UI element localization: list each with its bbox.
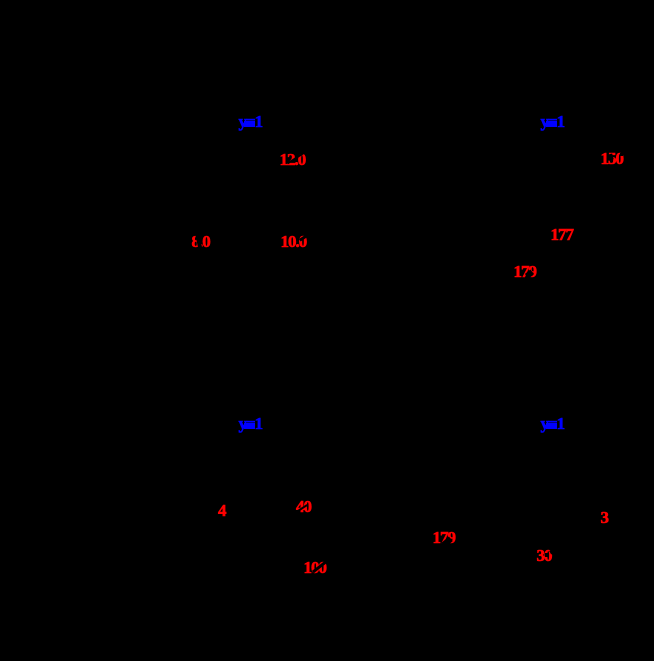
black edge crossing label 8.0 xyxy=(195,235,202,251)
black edge notch on 0 of label 30 xyxy=(549,549,554,554)
equals-sign fill blob of y=1 bottom-right xyxy=(546,423,557,429)
branch value 179 bottom-right tree xyxy=(433,529,456,546)
branch value 8.0 top-left tree xyxy=(192,233,210,250)
leaf label y=1 top-right tree xyxy=(541,113,565,130)
branch value 150 top-right tree xyxy=(601,150,624,167)
branch value 12.0 top-left tree xyxy=(280,151,306,168)
black edge crossing label 10.0 xyxy=(299,234,309,242)
equals-sign fill blob of y=1 top-right xyxy=(546,121,557,127)
black edge crossing label 40 xyxy=(297,504,307,512)
leaf label y=1 top-left tree xyxy=(239,113,263,130)
branch value 30 bottom-right tree xyxy=(537,547,552,564)
black edge notch on 0 of label 150 xyxy=(620,153,623,156)
black edge crossing label 12.0 xyxy=(287,152,305,165)
branch value 3 bottom-right tree xyxy=(601,509,609,526)
leaf label y=1 bottom-right tree xyxy=(541,415,565,432)
equals-sign fill blob of y=1 bottom-left xyxy=(244,423,255,429)
leaf label y=1 bottom-left tree xyxy=(239,415,263,432)
black edge crossing label 179 bottom-right xyxy=(441,536,453,547)
branch value 179 top-right tree xyxy=(514,263,537,280)
branch value 40 bottom-left tree xyxy=(296,498,311,515)
black edge crossing label 150 xyxy=(607,153,613,160)
black edge crossing label 100 xyxy=(312,560,328,573)
branch value 4 bottom-left tree xyxy=(218,502,226,519)
branch value 100 bottom-left tree xyxy=(304,559,327,576)
branch value 10.0 top-left tree xyxy=(281,233,307,250)
branch value 177 top-right tree xyxy=(551,226,574,243)
equals-sign fill blob of y=1 top-left xyxy=(244,121,255,127)
black edge crossing label 30 xyxy=(545,553,548,557)
black edge crossing label 179 top-right xyxy=(525,269,534,278)
